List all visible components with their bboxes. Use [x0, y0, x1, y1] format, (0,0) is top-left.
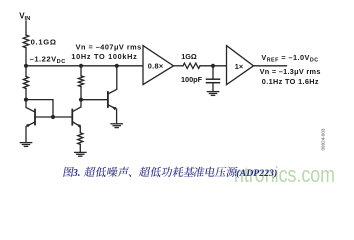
- ground for C1: [207, 91, 218, 93]
- wire: R1 to -1.22V rail: [25, 48, 27, 66]
- wire: node C down to Q2 collector: [73, 100, 81, 112]
- svg-text:0.8×: 0.8×: [148, 61, 164, 70]
- node junction dot at VIN/R1/rail: [24, 64, 28, 68]
- ground for Q3: [111, 123, 122, 125]
- wire: R4 to ground: [79, 144, 81, 152]
- op-amp buffer U2 1x: [227, 46, 254, 85]
- svg-text:0.1GΩ: 0.1GΩ: [31, 38, 57, 47]
- svg-text:100pF: 100pF: [181, 75, 203, 84]
- wire: -1.22VDC rail to amp U1 input: [26, 65, 143, 67]
- node D dot (filter node): [211, 64, 215, 68]
- transistor Q1 (PNP, mirrored): [34, 110, 36, 125]
- node junction dot rail/R3: [79, 64, 83, 68]
- wire: R2 to node A: [25, 89, 27, 100]
- svg-text:Vn = –1.3μV rms: Vn = –1.3μV rms: [260, 67, 321, 76]
- wire: VIN lead: [25, 21, 27, 35]
- wire: U1 output to R5: [174, 65, 184, 67]
- wire: rail down to R2: [25, 66, 27, 77]
- resistor R2: [23, 77, 28, 89]
- transistor Q2 (PNP): [71, 110, 73, 125]
- svg-text:1×: 1×: [235, 62, 243, 71]
- resistor R4 (Q2 emitter degeneration): [78, 133, 83, 145]
- wire: C1 to ground: [212, 83, 214, 92]
- node C dot (Q2 collector / Q3 base): [79, 98, 83, 102]
- svg-text:(ADP223): (ADP223): [236, 168, 277, 179]
- svg-text:Vn = –407μV rms: Vn = –407μV rms: [76, 42, 142, 51]
- capacitor C1 100pF: [207, 78, 220, 80]
- resistor R3: [78, 76, 83, 87]
- ground for R4: [75, 151, 86, 153]
- wire: node A to right: [26, 100, 53, 117]
- svg-text:09924-003: 09924-003: [321, 128, 326, 150]
- node B dot (base rail Q1/Q2): [51, 115, 55, 119]
- wire: R3 to node C: [80, 87, 82, 100]
- wire: node C to Q3 base: [81, 99, 108, 101]
- transistor Q3 (PNP): [107, 92, 109, 107]
- resistor R1 0.1Gohm: [23, 35, 29, 48]
- ground for Q1: [20, 142, 31, 144]
- resistor R5 1Gohm: [183, 63, 200, 68]
- wire: U2 output VREF: [254, 65, 287, 67]
- node junction dot rail/Q3 collector: [115, 64, 119, 68]
- wire: rail down to R3: [80, 66, 82, 76]
- svg-text:1GΩ: 1GΩ: [181, 52, 197, 61]
- svg-text:0.1Hz TO 1.6Hz: 0.1Hz TO 1.6Hz: [262, 77, 319, 86]
- svg-text:3.: 3.: [72, 168, 81, 179]
- node A dot (Q1 collector/base tie): [24, 98, 28, 102]
- wire: node D down to C1: [212, 66, 214, 79]
- op-amp buffer U1 0.8x: [143, 46, 174, 85]
- wire: R5 to node D and amp U2: [200, 65, 227, 67]
- caption figure 3 Chinese text: [63, 167, 237, 177]
- wire: base rail Q1 to Q2: [35, 116, 72, 118]
- svg-text:10Hz TO 100kHz: 10Hz TO 100kHz: [71, 52, 137, 61]
